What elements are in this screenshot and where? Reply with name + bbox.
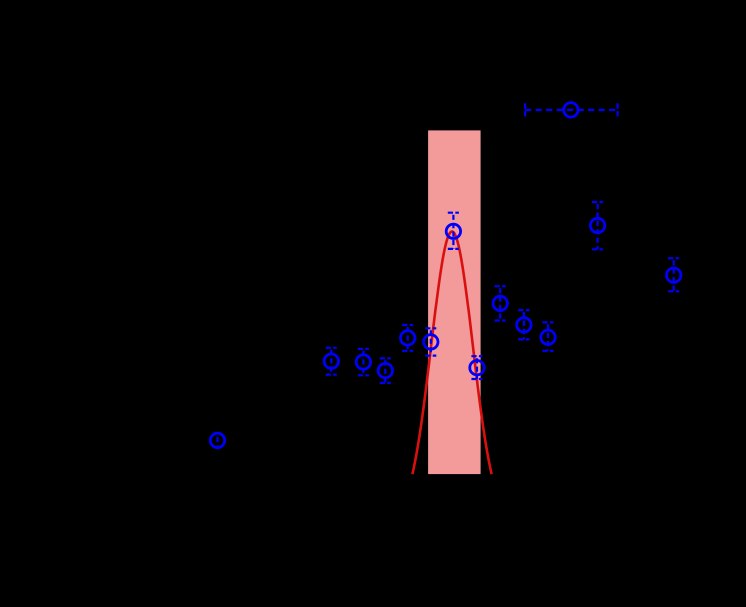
red fitted curve <box>412 232 491 475</box>
data point M4 with vertical error bar <box>378 358 392 383</box>
data point M1 with vertical error bar <box>210 433 224 447</box>
data point M2 with vertical error bar <box>324 348 338 375</box>
data point M11 with vertical error bar <box>541 322 555 351</box>
data point M5 with vertical error bar <box>401 325 415 351</box>
data point M8 with vertical error bar <box>470 356 484 379</box>
data point M6 with vertical error bar <box>424 328 438 355</box>
data point M14 with vertical error bar <box>667 258 681 291</box>
data point M12 with horizontal error bar <box>525 103 618 117</box>
data point M10 with vertical error bar <box>517 310 531 339</box>
data point M9 with vertical error bar <box>493 286 507 320</box>
data point M13 with vertical error bar <box>590 202 604 249</box>
data point M7 with vertical error bar <box>446 213 460 249</box>
pink shaded band <box>428 130 481 474</box>
data point M3 with vertical error bar <box>356 349 370 375</box>
